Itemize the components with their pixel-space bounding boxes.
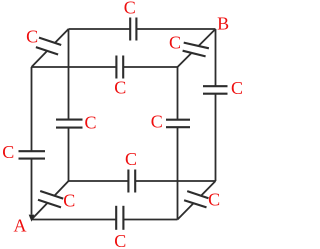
wire: bottom right diagonal edge (lower segment): [178, 203, 194, 219]
capacitor C (back left edge): [56, 120, 83, 128]
svg-text:C: C: [114, 231, 126, 249]
wire: back bottom edge (left segment): [69, 180, 129, 182]
capacitor C (top right diagonal edge): [183, 43, 209, 57]
svg-text:C: C: [124, 0, 136, 18]
svg-text:C: C: [231, 78, 243, 98]
capacitor C (front bottom edge): [116, 206, 123, 230]
wire: back left edge (lower segment): [68, 128, 70, 181]
wire: top right diagonal edge (upper segment): [199, 29, 216, 46]
capacitor C (top left diagonal edge): [36, 38, 61, 55]
svg-text:C: C: [114, 77, 126, 97]
wire: top left diagonal edge (upper segment): [55, 29, 69, 43]
wire: front right edge (lower segment): [177, 127, 179, 219]
wire: back bottom edge (right segment): [135, 180, 215, 182]
capacitor C (bottom right diagonal edge): [184, 191, 208, 207]
wire: front top edge (right segment): [123, 66, 177, 68]
wire: front top edge (left segment): [32, 66, 117, 68]
wire: front right edge (upper segment): [177, 67, 179, 120]
capacitor C (front right edge): [166, 120, 190, 128]
capacitor C (back top edge): [130, 18, 136, 41]
wire: bottom left diagonal edge (upper segment): [54, 181, 68, 196]
svg-text:C: C: [208, 190, 220, 210]
wire: top right diagonal edge (lower segment): [178, 53, 192, 67]
wire: front bottom edge (left segment): [32, 219, 117, 221]
capacitor C (bottom left diagonal edge): [38, 191, 63, 207]
capacitor C (back bottom edge): [128, 170, 135, 193]
wire: bottom left diagonal edge (lower segment): [32, 203, 48, 220]
capacitor C (back right edge): [203, 86, 228, 94]
wire: top left diagonal edge (lower segment): [32, 51, 48, 67]
svg-text:C: C: [125, 149, 137, 169]
svg-text:C: C: [169, 32, 181, 52]
svg-text:C: C: [151, 111, 163, 131]
svg-text:C: C: [84, 112, 96, 132]
wire: back right edge (lower segment): [215, 94, 217, 181]
wire: back right edge (upper segment): [215, 29, 217, 86]
wire: back top edge (right segment): [136, 28, 215, 30]
node A arrowhead (bottom of front left edge): [29, 215, 35, 222]
svg-text:B: B: [217, 14, 229, 34]
wire: front left edge (upper segment): [31, 67, 33, 151]
wire: front left edge (lower segment, arrow into node A): [31, 159, 33, 215]
wire: front bottom edge (right segment): [123, 219, 177, 221]
capacitor C (front left edge): [19, 151, 46, 158]
capacitor C (front top edge): [116, 56, 123, 79]
svg-text:C: C: [63, 191, 75, 211]
svg-text:C: C: [2, 142, 14, 162]
svg-text:A: A: [14, 216, 27, 236]
svg-text:C: C: [26, 26, 38, 46]
wire: back top edge (left segment): [69, 28, 131, 30]
wire: bottom right diagonal edge (upper segment): [201, 181, 216, 196]
wire: back left edge (upper segment): [68, 29, 70, 120]
